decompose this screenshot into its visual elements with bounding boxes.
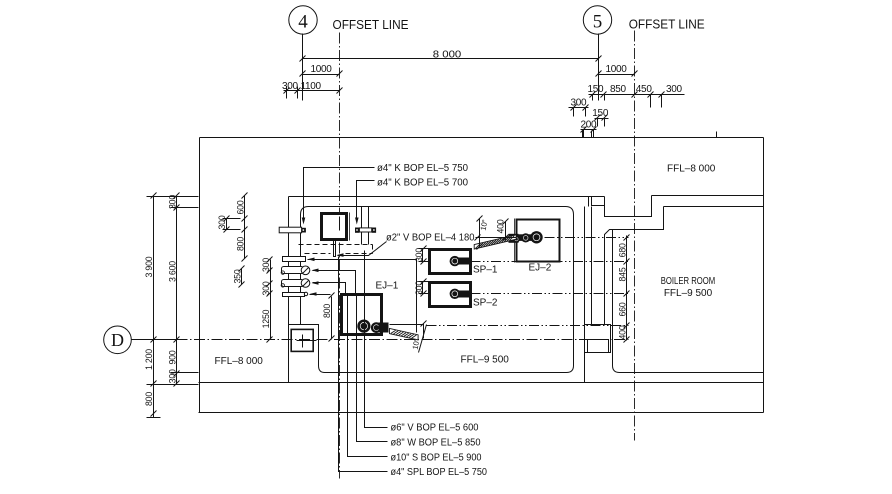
svg-text:BOILER ROOM: BOILER ROOM bbox=[661, 276, 716, 287]
svg-text:5: 5 bbox=[593, 12, 603, 33]
boiler pit wall bbox=[613, 230, 764, 373]
divider column box outer bbox=[585, 325, 611, 353]
riser phi6 V bbox=[365, 251, 388, 428]
svg-text:FFL–8 000: FFL–8 000 bbox=[215, 356, 264, 367]
leader phi2 V BOP EL-4 180 bbox=[337, 233, 475, 257]
svg-text:300: 300 bbox=[666, 84, 683, 95]
grid bubble D bbox=[104, 326, 132, 354]
SP-2 centerline bbox=[471, 293, 629, 295]
svg-text:300: 300 bbox=[571, 97, 588, 108]
svg-text:300: 300 bbox=[217, 215, 227, 229]
SP-2 dim 300 bbox=[414, 279, 429, 297]
heat exchanger box K bbox=[322, 213, 350, 241]
svg-text:ø2" V BOP EL–4 180: ø2" V BOP EL–4 180 bbox=[386, 233, 475, 244]
expansion joint EJ-2 box bbox=[515, 219, 560, 263]
pipe row2 run and riser bbox=[313, 271, 356, 295]
dim 600 left chain bbox=[236, 193, 248, 262]
interior wall notch down bbox=[605, 196, 652, 217]
grid line 5 bbox=[598, 34, 600, 95]
hidden pipe dashed outline bbox=[299, 245, 373, 254]
divider column box inner bbox=[588, 340, 609, 353]
offset centerline 5 bbox=[634, 31, 636, 441]
pipe row 4 flange bbox=[283, 292, 308, 296]
wall flange right (K BOP EL-5 700) bbox=[355, 228, 376, 233]
pipe row 3 spool bbox=[281, 279, 310, 288]
outer wall left bbox=[199, 138, 201, 413]
svg-text:4: 4 bbox=[298, 12, 308, 33]
outer wall top bbox=[200, 137, 764, 139]
left dim line inner bbox=[168, 193, 180, 387]
pipe row2 arrow bbox=[312, 269, 319, 273]
EJ-1 inclined hatched pipe bbox=[390, 325, 424, 341]
dim 300 small left bbox=[217, 215, 240, 232]
interior left wall vertical bbox=[288, 197, 290, 383]
svg-text:150: 150 bbox=[588, 84, 605, 95]
grid line 4 bbox=[302, 34, 304, 101]
svg-text:OFFSET LINE: OFFSET LINE bbox=[333, 18, 409, 32]
expansion joint EJ-1 box bbox=[342, 295, 382, 335]
dim 800 near EJ-1 bbox=[322, 293, 334, 342]
dim 150 small right bbox=[592, 108, 609, 127]
riser phi8 W bbox=[357, 295, 388, 442]
svg-text:300: 300 bbox=[414, 281, 424, 295]
svg-text:ø10" S BOP EL–5 900: ø10" S BOP EL–5 900 bbox=[391, 453, 482, 464]
svg-text:EJ–2: EJ–2 bbox=[529, 263, 552, 274]
left dim line outer bbox=[144, 193, 156, 418]
svg-text:850: 850 bbox=[610, 84, 627, 95]
flange right pipes bbox=[362, 207, 369, 245]
grid bubble 5 bbox=[583, 6, 611, 34]
pipe row3 arrow bbox=[312, 281, 319, 285]
boiler entry step bbox=[605, 207, 664, 325]
dim 1000 right bbox=[596, 64, 638, 77]
EJ-2 angle dim 10deg and 400 bbox=[477, 216, 509, 250]
offset centerline 4 bbox=[339, 33, 341, 479]
interior wall vertical x300 bbox=[300, 215, 302, 325]
svg-text:ø8" W BOP EL–5 850: ø8" W BOP EL–5 850 bbox=[391, 438, 481, 449]
pump SP-2 box bbox=[430, 283, 471, 307]
svg-text:350: 350 bbox=[232, 269, 242, 283]
svg-text:300: 300 bbox=[414, 248, 424, 262]
wall pilaster stub bbox=[589, 197, 605, 207]
riser phi10 S bbox=[348, 295, 388, 457]
svg-text:SP–2: SP–2 bbox=[473, 298, 498, 309]
svg-text:800: 800 bbox=[322, 304, 332, 318]
dim 300 1100 left bbox=[282, 81, 343, 99]
svg-text:300: 300 bbox=[282, 81, 299, 92]
SP-1 centerline bbox=[471, 261, 629, 263]
svg-text:10°: 10° bbox=[479, 219, 490, 231]
svg-text:10°: 10° bbox=[411, 338, 422, 350]
pipe row4 run bbox=[310, 294, 331, 296]
svg-text:ø6" V BOP EL–5 600: ø6" V BOP EL–5 600 bbox=[391, 423, 479, 434]
riser phi4 SPL bbox=[339, 257, 388, 472]
dim 1000 left bbox=[300, 64, 343, 77]
extension ticks above top wall bbox=[582, 131, 584, 138]
SP-1 pump bbox=[450, 256, 470, 266]
dim chain 150 850 450 300 right bbox=[588, 84, 685, 108]
svg-text:800: 800 bbox=[236, 237, 246, 251]
floor drain box bbox=[291, 329, 313, 351]
EJ-2 inclined hatched pipe bbox=[474, 235, 516, 249]
leader K BOP EL-5 750 bbox=[302, 163, 469, 225]
bottom wall band top line bbox=[199, 382, 764, 384]
pipe row3 run and riser bbox=[313, 283, 346, 295]
svg-text:300: 300 bbox=[168, 369, 178, 383]
svg-text:FFL–9 500: FFL–9 500 bbox=[461, 355, 510, 366]
dim 8000 bbox=[300, 50, 602, 62]
svg-text:3 600: 3 600 bbox=[168, 261, 178, 282]
svg-text:800: 800 bbox=[144, 392, 154, 406]
EJ-1 discharge centerline bbox=[427, 325, 629, 327]
wall flange left (K BOP EL-5 750) bbox=[279, 227, 306, 233]
pump SP-1 box bbox=[430, 250, 471, 274]
svg-text:900: 900 bbox=[168, 350, 178, 364]
pipe row 1 flange bbox=[283, 257, 306, 262]
svg-text:450: 450 bbox=[636, 84, 653, 95]
svg-text:D: D bbox=[111, 330, 124, 350]
phi2 valve bar bbox=[334, 241, 336, 257]
angle dim tick line to EJ-2 bbox=[475, 235, 517, 241]
interior wall right segment y195.5 bbox=[652, 195, 764, 197]
svg-text:680: 680 bbox=[617, 243, 627, 257]
svg-text:ø4" K BOP EL–5 700: ø4" K BOP EL–5 700 bbox=[377, 178, 468, 189]
dim 350 left bbox=[232, 266, 244, 288]
outer wall right bbox=[763, 138, 765, 413]
svg-text:845: 845 bbox=[617, 267, 627, 281]
svg-text:150: 150 bbox=[592, 108, 609, 119]
pipe row4 arrow bbox=[310, 292, 317, 296]
svg-text:EJ–1: EJ–1 bbox=[376, 281, 399, 292]
dim 300 300 1250 line bbox=[261, 257, 273, 343]
svg-text:600: 600 bbox=[236, 200, 246, 214]
pipe row1 arrow bbox=[308, 258, 315, 262]
pipe row1 run and riser bbox=[308, 260, 417, 333]
leader K BOP EL-5 700 bbox=[355, 178, 468, 225]
divider wall line a bbox=[584, 207, 586, 383]
svg-text:1100: 1100 bbox=[301, 81, 322, 92]
svg-text:300: 300 bbox=[261, 258, 271, 272]
svg-text:3 900: 3 900 bbox=[144, 256, 154, 277]
svg-text:200: 200 bbox=[581, 120, 598, 131]
interior wall right segment y206.9 bbox=[664, 206, 764, 208]
svg-text:ø4" SPL BOP EL–5 750: ø4" SPL BOP EL–5 750 bbox=[391, 467, 488, 478]
svg-text:660: 660 bbox=[617, 302, 627, 316]
svg-text:SP–1: SP–1 bbox=[473, 265, 498, 276]
svg-text:OFFSET LINE: OFFSET LINE bbox=[629, 18, 705, 32]
EJ-1 angle dim 10deg bbox=[411, 321, 427, 353]
SP-2 pump bbox=[450, 289, 470, 299]
svg-text:400: 400 bbox=[617, 325, 627, 339]
EJ-2 centerline bbox=[545, 237, 629, 239]
svg-text:400: 400 bbox=[496, 219, 506, 233]
svg-text:FFL–9 500: FFL–9 500 bbox=[664, 288, 713, 299]
svg-text:1000: 1000 bbox=[310, 64, 332, 75]
svg-text:1250: 1250 bbox=[261, 309, 271, 328]
dim chain 680 845 660 400 bbox=[617, 235, 629, 343]
svg-text:1 200: 1 200 bbox=[144, 349, 154, 370]
svg-text:8 000: 8 000 bbox=[433, 50, 462, 61]
EJ-1 pump circles bbox=[357, 320, 388, 334]
left dim extension lines bbox=[147, 196, 199, 198]
divider wall line b bbox=[591, 207, 593, 330]
grid row D line bbox=[132, 339, 177, 341]
svg-text:1000: 1000 bbox=[605, 64, 627, 75]
divider wall line c bbox=[604, 235, 606, 330]
interior wall line y196 bbox=[289, 196, 605, 198]
EJ-2 pump circles bbox=[509, 231, 543, 243]
pipe row 2 spool bbox=[281, 266, 310, 275]
bottom wall band bottom line bbox=[199, 412, 764, 414]
svg-text:ø4" K BOP EL–5 750: ø4" K BOP EL–5 750 bbox=[377, 163, 468, 174]
main room pit outline bbox=[289, 215, 574, 373]
floor drain cross bbox=[297, 335, 317, 348]
svg-text:300: 300 bbox=[261, 281, 271, 295]
tick on top wall right bbox=[716, 132, 718, 138]
dim 300 small right bbox=[569, 97, 589, 116]
svg-text:FFL–8 000: FFL–8 000 bbox=[667, 164, 716, 175]
grid bubble 4 bbox=[289, 6, 317, 34]
dim 200 small right bbox=[581, 120, 598, 138]
SP-1 dim 300 bbox=[414, 246, 429, 265]
interior wall line y207 with fillets bbox=[301, 207, 574, 215]
